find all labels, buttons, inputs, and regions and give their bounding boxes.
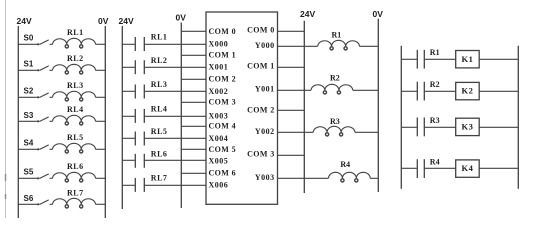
- svg-text:COM 1: COM 1: [247, 62, 275, 71]
- svg-text:R2: R2: [330, 74, 340, 83]
- svg-text:RL7: RL7: [67, 188, 84, 197]
- svg-text:RL3: RL3: [151, 80, 168, 89]
- svg-text:R3: R3: [330, 117, 340, 126]
- svg-text:RL4: RL4: [151, 105, 168, 114]
- svg-text:S5: S5: [24, 167, 34, 176]
- svg-text:COM 0: COM 0: [209, 27, 237, 36]
- svg-text:RL6: RL6: [151, 150, 168, 159]
- svg-text:COM 2: COM 2: [209, 75, 237, 84]
- svg-text:COM 5: COM 5: [209, 145, 237, 154]
- svg-text:RL2: RL2: [67, 54, 84, 63]
- svg-text:RL2: RL2: [151, 56, 168, 65]
- svg-text:COM 3: COM 3: [209, 98, 237, 107]
- svg-text:COM 4: COM 4: [209, 122, 237, 131]
- svg-text:K3: K3: [462, 122, 474, 132]
- svg-text:COM 0: COM 0: [247, 26, 275, 35]
- svg-text:COM 2: COM 2: [247, 105, 275, 114]
- svg-text:R4: R4: [340, 160, 350, 169]
- svg-text:S3: S3: [24, 111, 34, 120]
- svg-text:S4: S4: [24, 139, 34, 148]
- svg-text:Y002: Y002: [255, 127, 275, 136]
- svg-text:RL5: RL5: [67, 133, 84, 142]
- svg-text:Y001: Y001: [255, 84, 275, 93]
- svg-text:RL1: RL1: [151, 33, 168, 42]
- svg-text:RL7: RL7: [151, 174, 168, 183]
- svg-text:X005: X005: [209, 156, 229, 165]
- svg-text:Y003: Y003: [255, 173, 275, 182]
- svg-text:24V: 24V: [300, 9, 315, 19]
- svg-text:RL5: RL5: [151, 127, 168, 136]
- svg-text:S2: S2: [24, 86, 34, 95]
- svg-text:K1: K1: [462, 54, 474, 64]
- svg-text:X003: X003: [209, 111, 229, 120]
- svg-text:S0: S0: [24, 34, 34, 43]
- svg-text:0V: 0V: [176, 13, 187, 23]
- svg-text:R3: R3: [430, 116, 440, 125]
- svg-text:R1: R1: [430, 48, 440, 57]
- svg-text:X000: X000: [209, 40, 229, 49]
- svg-text:K4: K4: [462, 163, 474, 173]
- svg-text:S6: S6: [24, 194, 34, 203]
- svg-text:R4: R4: [430, 158, 440, 167]
- svg-text:RL3: RL3: [67, 81, 84, 90]
- svg-text:RL6: RL6: [67, 162, 84, 171]
- svg-text:0V: 0V: [373, 9, 384, 19]
- svg-text:X006: X006: [209, 180, 229, 189]
- svg-text:COM 1: COM 1: [209, 51, 237, 60]
- svg-text:X002: X002: [209, 87, 229, 96]
- svg-text:K2: K2: [462, 86, 474, 96]
- svg-text:COM 3: COM 3: [247, 150, 275, 159]
- svg-text:S1: S1: [24, 60, 34, 69]
- svg-text:R2: R2: [430, 80, 440, 89]
- svg-text:X004: X004: [209, 134, 229, 143]
- svg-text:RL1: RL1: [67, 28, 84, 37]
- svg-text:0V: 0V: [98, 16, 109, 26]
- svg-text:24V: 24V: [119, 16, 134, 26]
- svg-text:R1: R1: [332, 31, 342, 40]
- svg-text:RL4: RL4: [67, 105, 84, 114]
- svg-text:24V: 24V: [17, 16, 32, 26]
- svg-text:COM 6: COM 6: [209, 169, 237, 178]
- svg-text:X001: X001: [209, 63, 229, 72]
- svg-text:Y000: Y000: [255, 41, 275, 50]
